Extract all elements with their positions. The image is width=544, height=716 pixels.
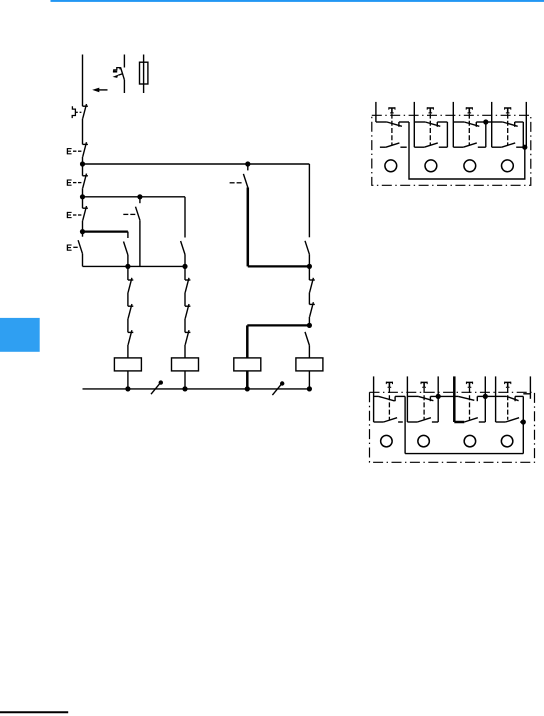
pushbutton E4 (NO) — [73, 232, 82, 254]
wire: contact to node D — [308, 254, 310, 266]
wire: box2 unit4 output vertical — [522, 396, 524, 453]
wire: contact down to bottom row — [139, 220, 141, 266]
wire: K1 contacts to coil — [127, 345, 129, 358]
lamp HL2 box1 — [425, 160, 437, 172]
junction rail K4 — [307, 386, 312, 391]
lamp HL7 box2 — [464, 435, 476, 447]
box2 unit 1 drive link (dashed) — [388, 388, 390, 420]
contact K1.3 (NC) — [128, 330, 133, 345]
box2 unit 2 NO contact — [407, 418, 438, 422]
wire: box1 unit 3 input stub — [452, 102, 454, 147]
junction on H1 — [245, 161, 250, 166]
box2 unit 3 actuator T — [466, 382, 473, 388]
box1 unit 2 actuator T — [427, 107, 434, 113]
wire: rail node A to E2 — [82, 164, 84, 176]
contact K3b NO top of right column — [305, 241, 309, 255]
junction node C — [80, 229, 85, 234]
box1 unit 3 NC contact — [453, 122, 486, 127]
junction rail K1 — [125, 386, 130, 391]
wire: column K2 verticals — [184, 266, 186, 332]
latch mechanism symbol — [72, 106, 81, 118]
box1 unit 1 drive link (dashed) — [391, 114, 393, 145]
coil K3 — [234, 358, 261, 371]
box2 unit 1 actuator T — [386, 382, 393, 388]
switch Q1 latched contact — [83, 104, 88, 119]
junction node D — [307, 264, 312, 269]
wire H5 thick: node E left — [247, 324, 309, 326]
junction node A — [80, 161, 85, 166]
wire H3 thick: node C right — [83, 230, 128, 232]
contact K2.1 (NC) — [185, 278, 190, 293]
box1 unit 1 NC contact — [376, 122, 409, 127]
junction box1 output — [522, 145, 527, 150]
wire: rail E3 to node C — [82, 221, 84, 232]
wire: box1 unit 1 input stub — [375, 102, 377, 122]
contact K3 NO — [124, 232, 128, 255]
wire H4 thick: to node D — [248, 265, 310, 267]
pushbutton E1 (NC) — [73, 142, 88, 157]
box2 unit 4 drive link (dashed) — [507, 388, 509, 420]
wire: box2 unit 1 input stub — [373, 376, 375, 422]
wire: box2 unit2 tap stub up — [437, 376, 439, 396]
wire: box2 unit 2 input stub — [406, 376, 408, 422]
contact K2.2 (NC) — [185, 304, 190, 319]
wire: K2 contacts to coil — [184, 345, 186, 358]
junction box2 unit3 NC output — [483, 394, 488, 399]
label E of E4 — [67, 245, 71, 251]
wire: box2 spare stub — [529, 376, 531, 398]
wire: box1 unit 2 input stub — [413, 102, 415, 147]
label E of E1 — [67, 148, 71, 154]
coil K1 — [114, 358, 141, 371]
trip release symbol — [113, 68, 123, 78]
junction node E — [307, 323, 312, 328]
disconnect link 2 — [272, 381, 284, 395]
wire: bottom row left — [83, 265, 186, 267]
label E of E2 — [67, 180, 71, 186]
contact K4 NO (dashed drive) — [230, 164, 248, 187]
box1 unit 2 NO contact — [414, 143, 447, 147]
wire: rail E2 to node B — [82, 188, 84, 197]
pushbutton E2 (NC) — [73, 174, 88, 189]
box1 unit 1 actuator T — [389, 107, 396, 113]
wire: bottom return rail — [83, 388, 310, 390]
box2 unit 1 NO contact (right open) — [374, 418, 403, 422]
junction box2 unit2 NC output — [436, 394, 441, 399]
box1 unit 4 actuator T — [504, 107, 511, 113]
wire thick: box2 unit 3 input stub (current path) — [453, 376, 456, 422]
wire: box2 inner return path — [405, 453, 523, 455]
contact K2 NO — [181, 241, 185, 255]
wire: box2 unit4 top link — [523, 393, 530, 395]
junction bottom row col2 — [182, 264, 187, 269]
wire: box2 unit3 output vertical — [484, 396, 486, 422]
wire: rail E4 to bottom node — [82, 254, 84, 267]
box2 unit 3 NC contact — [454, 396, 485, 401]
contact K1.1 (NC) — [128, 278, 133, 293]
box1 unit 3 actuator T — [466, 107, 473, 113]
wire: H1 corner down to contact — [308, 164, 310, 237]
junction box1 unit3 output — [483, 119, 488, 124]
junction bottom row col1 — [125, 264, 130, 269]
coil K2 — [172, 358, 199, 371]
lamp HL4 box1 — [502, 160, 514, 172]
wire H2: node B right — [83, 196, 186, 198]
lamp HL6 box2 — [418, 435, 430, 447]
enclosure: pushbutton station 1 (dash-dot) — [372, 115, 531, 185]
box1 unit 2 NC contact — [414, 122, 447, 127]
wire: box2 link unit3 to unit4 — [485, 395, 495, 397]
box2 unit 4 NC contact — [496, 396, 524, 401]
pushbutton E3 (NC) — [73, 206, 88, 221]
wire thick: down to coil K3 — [246, 325, 249, 358]
arrow: actuation direction — [92, 88, 107, 93]
wire: between contacts — [308, 292, 310, 304]
lamp HL3 box1 — [464, 160, 476, 172]
lamp HL8 box2 — [501, 435, 512, 447]
contact K1.2 (NC) — [128, 304, 133, 319]
contact K4b (NC) — [309, 302, 314, 317]
junction rail K2 — [182, 386, 187, 391]
wire: box1 unit4 corner vertical — [522, 122, 524, 147]
junction rail K3 — [245, 386, 250, 391]
wire: box2 unit3 tap stub up — [484, 376, 486, 396]
junction on H2 — [137, 194, 142, 199]
contact K1 NO (dashed drive) — [123, 197, 140, 220]
breaker Q2 contact — [121, 55, 125, 94]
wire: box1 unit2 output vertical — [446, 122, 448, 147]
wire: vertical supply line L1 top — [82, 55, 84, 107]
wire: node D down — [308, 266, 310, 280]
box1 unit 3 drive link (dashed) — [468, 114, 470, 145]
label E of E3 — [67, 212, 71, 218]
wire thick: contact to bottom row (current path) — [247, 187, 250, 266]
box2 unit 4 NO contact — [496, 418, 524, 422]
contact K4c NO below node E — [305, 325, 309, 345]
wire: contact to node E — [308, 317, 310, 326]
fuse F1 — [140, 55, 148, 94]
wire: rail node B to E3 — [82, 197, 84, 208]
lamp HL1 box1 — [385, 160, 397, 172]
coil K4 — [296, 358, 323, 371]
wire: box1 unit 4 input stub — [491, 102, 493, 147]
wire: box2 unit2 output vertical — [437, 396, 439, 422]
wire: box2 unit1 output vertical long — [404, 396, 406, 453]
wire: coil K3 to N rail — [246, 371, 249, 389]
junction box2 output — [521, 419, 526, 424]
contact K2.3 (NC) — [185, 330, 190, 345]
wire: box1 unit3 output vertical — [485, 122, 487, 147]
wire: contact to bottom node — [184, 255, 186, 267]
enclosure: pushbutton station 2 (dash-dot) — [370, 392, 535, 462]
wire: column K1 verticals — [127, 266, 129, 332]
box1 unit 3 NO contact — [453, 143, 486, 147]
contact K4a (NC) — [309, 278, 314, 293]
box2 unit 3 NO contact thick lead — [454, 418, 485, 422]
lamp HL5 box2 — [381, 435, 393, 447]
wire: box1 link unit3 to unit4 — [486, 121, 492, 123]
box2 unit 4 actuator T — [504, 382, 511, 388]
wire: coil K1 to N rail — [127, 371, 129, 389]
disconnect link 1 — [151, 380, 163, 394]
box2 unit 1 NC contact — [374, 396, 406, 401]
box1 unit 2 drive link (dashed) — [429, 114, 431, 145]
box2 unit 2 actuator T — [421, 382, 428, 388]
wire: box1 inner return path — [409, 122, 525, 179]
wire: contact to bottom node — [127, 255, 129, 266]
box2 unit 2 NC contact — [407, 396, 454, 401]
wire: H2 corner down — [184, 197, 186, 238]
wire: box2 unit 4 input stub — [495, 376, 497, 422]
wire: contact to coil K4 — [308, 345, 310, 358]
box1 unit 1 NO contact (unconnected) — [380, 143, 407, 147]
wire: coil K2 to N rail — [184, 371, 186, 389]
box1 unit 4 NC contact — [492, 122, 524, 127]
box1 unit 4 NO contact — [492, 143, 524, 147]
wire: box1 output stub — [525, 102, 527, 147]
junction node B — [80, 194, 85, 199]
wire: coil K4 to N rail — [308, 371, 310, 389]
box2 unit 2 drive link (dashed) — [423, 388, 425, 420]
wire H1: node A right — [83, 163, 310, 165]
wire: rail E1 to node A — [82, 157, 84, 164]
box1 unit 4 drive link (dashed) — [507, 114, 509, 145]
wire: rail Q1 to E1 — [82, 119, 84, 145]
box2 unit 3 drive link (dashed) — [469, 388, 471, 420]
